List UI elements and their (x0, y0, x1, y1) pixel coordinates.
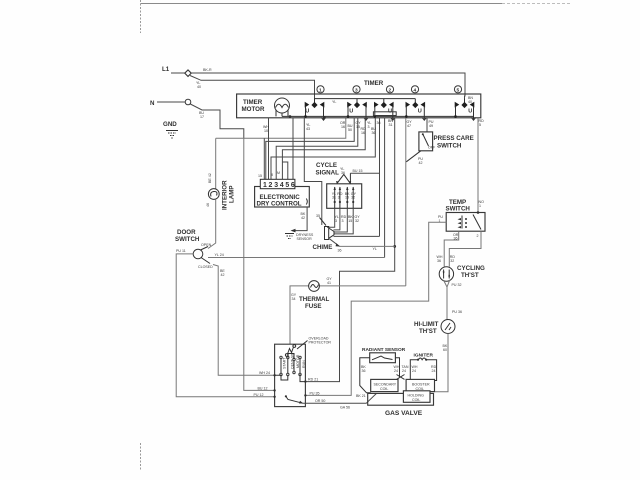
svg-text:24: 24 (412, 369, 416, 373)
wire N bus to motor BU12 (244, 138, 275, 390)
wire chime bottom lead (330, 239, 340, 247)
svg-text:40: 40 (197, 85, 201, 89)
wire timer to motor RD21 (306, 118, 395, 382)
svg-text:4: 4 (280, 182, 284, 189)
svg-text:START: START (283, 357, 287, 369)
wire EDC to dryness sensor ground (293, 207, 307, 231)
svg-text:CLOSED: CLOSED (198, 265, 213, 269)
tent wires into box (337, 174, 350, 183)
centrifugal switch arm (286, 397, 303, 404)
svg-text:1: 1 (479, 204, 481, 208)
svg-text:U: U (388, 109, 392, 115)
svg-text:SIGNAL: SIGNAL (316, 170, 340, 177)
gas valve bottom bar (368, 393, 434, 405)
svg-text:15: 15 (258, 174, 262, 178)
svg-text:15: 15 (348, 219, 352, 223)
wire t5 jog (282, 162, 287, 179)
svg-text:L1: L1 (162, 66, 170, 73)
wire lamp to door switch (208, 199, 216, 248)
press care switch PCS (406, 132, 473, 165)
svg-text:PRESS CARE: PRESS CARE (434, 135, 474, 142)
wire L1 switch arm to timer cam 1 (190, 76, 315, 100)
wire chime line long (340, 245, 395, 247)
svg-text:2: 2 (269, 182, 273, 189)
svg-text:50: 50 (348, 128, 352, 132)
interior lamp circuit (206, 138, 236, 248)
wire timer to chime line (with tee to cycle apex) (379, 118, 381, 237)
svg-text:HOLDING: HOLDING (408, 394, 425, 398)
svg-text:OFF: OFF (428, 146, 436, 150)
svg-text:BOOSTER: BOOSTER (412, 383, 430, 387)
wire door line to timer (long) (208, 257, 385, 259)
svg-text:2: 2 (477, 234, 479, 238)
svg-text:TIMER: TIMER (243, 99, 263, 106)
svg-text:16: 16 (361, 131, 365, 135)
svg-text:24: 24 (432, 369, 436, 373)
wire N bus to lamp (215, 138, 217, 188)
svg-text:17: 17 (200, 115, 204, 119)
svg-text:U: U (349, 109, 353, 115)
wire temp switch to cycling left (444, 231, 459, 267)
svg-text:36: 36 (338, 249, 342, 253)
svg-text:34: 34 (292, 297, 296, 301)
booster coil (406, 379, 434, 391)
temp switch TS (438, 199, 485, 231)
ground dryness sensor (285, 233, 314, 241)
cycle signal (316, 162, 380, 234)
wire timer to t4 line (282, 118, 365, 180)
svg-text:47: 47 (407, 124, 411, 128)
temp switch contacts (461, 216, 463, 229)
wire timer to press care switch (426, 118, 428, 132)
timer cam 3 (374, 99, 395, 121)
svg-text:15: 15 (356, 125, 360, 129)
svg-text:42: 42 (221, 273, 225, 277)
svg-text:THERMAL: THERMAL (299, 296, 329, 303)
svg-text:COIL: COIL (380, 387, 388, 391)
svg-text:3: 3 (368, 125, 370, 129)
svg-text:31: 31 (332, 196, 336, 200)
overload protector OP (288, 347, 294, 354)
svg-text:3: 3 (338, 196, 340, 200)
svg-text:41: 41 (327, 281, 331, 285)
svg-text:4: 4 (414, 87, 417, 93)
EDC terminal strip 1-6 (260, 179, 295, 188)
node L1 (162, 66, 465, 99)
wires cycle signal to chime (327, 208, 335, 227)
svg-text:SECONDARY: SECONDARY (374, 383, 397, 387)
timer cam 5 (454, 99, 475, 121)
svg-text:31: 31 (389, 123, 393, 127)
svg-text:1: 1 (263, 182, 267, 189)
svg-text:36: 36 (372, 131, 376, 135)
svg-text:DRY CONTROL: DRY CONTROL (257, 201, 302, 208)
svg-text:BE 42: BE 42 (208, 173, 212, 183)
svg-text:36: 36 (454, 237, 458, 241)
wire timer to door switch line (384, 118, 386, 258)
wire chime to timer 4th (334, 235, 380, 237)
svg-text:YL: YL (373, 247, 377, 251)
svg-text:MOTOR: MOTOR (242, 106, 265, 113)
svg-text:5: 5 (285, 182, 289, 189)
wire N switch arm to N bus (190, 104, 244, 138)
wire L1 feed (171, 72, 185, 74)
svg-text:RADIANT SENSOR: RADIANT SENSOR (362, 347, 406, 353)
wire N bus drop to terminal 1 (263, 138, 265, 179)
motor internal windings (280, 356, 282, 358)
svg-text:TH'ST: TH'ST (461, 272, 479, 279)
svg-text:FUSE: FUSE (305, 303, 322, 310)
timer cam 1 (304, 99, 325, 121)
timer cam 4 (405, 99, 426, 121)
svg-text:SWITCH: SWITCH (437, 143, 462, 150)
wire N bus horizontal (216, 118, 346, 138)
svg-text:46: 46 (206, 203, 210, 207)
timer internal common bus (282, 115, 474, 117)
svg-text:SWITCH: SWITCH (446, 206, 471, 213)
terminal L1 (185, 70, 192, 77)
cycling thermostat CT (437, 255, 486, 320)
wire PCS arm to thermal line (406, 151, 421, 162)
svg-text:42: 42 (419, 161, 423, 165)
svg-text:CHIME: CHIME (313, 244, 333, 251)
electronic dry control EDC (255, 171, 310, 208)
wire temp switch left lead to motor PU35 (305, 222, 446, 395)
svg-text:5: 5 (457, 87, 460, 93)
svg-text:32: 32 (355, 219, 359, 223)
svg-text:36: 36 (437, 259, 441, 263)
svg-text:CYCLE: CYCLE (316, 162, 337, 169)
door switch DS (175, 229, 225, 277)
svg-text:RD 21: RD 21 (308, 378, 318, 382)
svg-text:RUN: RUN (302, 360, 306, 368)
svg-text:2: 2 (389, 87, 392, 93)
svg-text:GAS VALVE: GAS VALVE (385, 410, 423, 417)
junction chime line (393, 245, 396, 248)
svg-text:PU 11: PU 11 (176, 249, 186, 253)
svg-text:43: 43 (306, 127, 310, 131)
crossing leads (397, 375, 405, 380)
wire L1 to timer cam 5 (191, 73, 465, 99)
svg-text:3: 3 (274, 182, 278, 189)
svg-text:U: U (418, 109, 422, 115)
svg-text:3: 3 (335, 219, 337, 223)
svg-text:OR 50: OR 50 (315, 399, 325, 403)
cycle signal box (327, 184, 362, 209)
svg-text:LAMP: LAMP (229, 185, 236, 203)
svg-text:BU 12: BU 12 (258, 387, 268, 391)
svg-text:6: 6 (291, 182, 295, 189)
holding coil (403, 391, 430, 403)
svg-text:35: 35 (316, 214, 320, 218)
sensor assembly outline (360, 358, 371, 393)
svg-text:36: 36 (377, 121, 381, 125)
svg-text:GA 56: GA 56 (340, 406, 350, 410)
svg-text:PROTECTOR: PROTECTOR (309, 341, 332, 345)
svg-text:TIMER: TIMER (364, 80, 384, 87)
junction cam1 stem (323, 116, 325, 118)
motor internal connection lines (275, 375, 288, 380)
svg-text:SWITCH: SWITCH (175, 236, 200, 243)
lamp IL (208, 189, 219, 200)
wire timer to EDC terminal 2 (268, 118, 270, 180)
svg-text:PU 36: PU 36 (452, 310, 462, 314)
hi-limit thermostat HL (414, 320, 455, 392)
wire door closed to motor WH24 (213, 265, 275, 376)
wire door common to motor PU12 (176, 254, 274, 397)
svg-text:YL: YL (332, 100, 336, 104)
svg-text:TH'ST: TH'ST (419, 328, 437, 335)
ground GND (163, 121, 178, 138)
svg-text:INTERIOR: INTERIOR (222, 180, 229, 210)
svg-text:N: N (150, 100, 155, 107)
svg-text:U: U (468, 109, 472, 115)
svg-text:24: 24 (394, 369, 398, 373)
svg-text:60: 60 (443, 348, 447, 352)
svg-text:DOOR: DOOR (177, 229, 196, 236)
svg-text:BK-R: BK-R (203, 68, 212, 72)
timer cam 2 (347, 99, 368, 121)
thermal fuse TF (291, 277, 332, 310)
wire centrifugal arm to gas valve (303, 393, 377, 403)
cam 3 lower loop (373, 112, 396, 116)
svg-text:32: 32 (450, 259, 454, 263)
svg-text:GND: GND (163, 121, 177, 128)
svg-text:3: 3 (355, 87, 358, 93)
svg-text:COIL: COIL (412, 398, 420, 402)
wire timer to EDC terminal 6 (292, 118, 294, 180)
wire timer to t3 line (276, 118, 358, 180)
svg-text:1: 1 (319, 87, 322, 93)
wire N feed (157, 101, 185, 103)
wire timer to temp switch (477, 118, 479, 213)
svg-text:WH 24: WH 24 (259, 371, 270, 375)
svg-text:PU 32: PU 32 (452, 283, 462, 287)
svg-text:10: 10 (264, 129, 268, 133)
svg-text:16: 16 (341, 125, 345, 129)
svg-text:8: 8 (271, 173, 273, 177)
secondary coil (371, 379, 398, 391)
chime CH (313, 214, 395, 253)
svg-text:BK 21: BK 21 (356, 394, 366, 398)
wire timer to t2 line (271, 118, 375, 180)
border frame (partial) (141, 0, 573, 470)
svg-text:24: 24 (402, 369, 406, 373)
wire thermal fuse line to motor top (320, 285, 406, 287)
svg-text:PU 12: PU 12 (254, 393, 264, 397)
svg-text:42: 42 (301, 216, 305, 220)
svg-text:BU 15: BU 15 (353, 169, 363, 173)
wire hi-limit to gas valve booster (435, 334, 449, 392)
wire temp switch to cycling right (449, 231, 481, 267)
svg-text:PU 35: PU 35 (310, 392, 320, 396)
svg-text:40: 40 (468, 100, 472, 104)
svg-text:3: 3 (342, 219, 344, 223)
svg-text:OPEN: OPEN (201, 243, 212, 247)
wire cycling to hi-limit (444, 280, 448, 320)
motor terminals (273, 374, 275, 376)
svg-text:U: U (305, 109, 309, 115)
svg-text:YL 24: YL 24 (215, 253, 224, 257)
radiant sensor RS (370, 353, 396, 363)
wire timer to t1 line (266, 118, 354, 180)
svg-text:M: M (277, 171, 280, 175)
drive motor M with centrifugal switch (273, 337, 331, 407)
svg-text:32: 32 (351, 196, 355, 200)
svg-text:SENSOR: SENSOR (297, 237, 313, 241)
svg-text:49: 49 (429, 124, 433, 128)
gas valve assembly (356, 347, 437, 417)
cycle signal internal contacts (332, 187, 357, 209)
node N (150, 99, 244, 138)
timer box (237, 80, 481, 118)
svg-text:MOTOR: MOTOR (296, 354, 300, 368)
timer motor TM (275, 98, 290, 113)
terminal N (185, 99, 191, 105)
svg-text:36: 36 (362, 369, 366, 373)
svg-text:CYCLING: CYCLING (457, 265, 485, 272)
svg-text:HI-LIMIT: HI-LIMIT (414, 321, 439, 328)
wire timer to cycle signal box (304, 118, 322, 225)
wire cycle apex to timer tee (350, 172, 379, 174)
svg-text:15: 15 (345, 196, 349, 200)
svg-text:5: 5 (479, 123, 481, 127)
timer wire labels (263, 119, 484, 135)
timer cam position numbers (317, 86, 473, 104)
wire timer to thermal fuse line (405, 118, 407, 286)
